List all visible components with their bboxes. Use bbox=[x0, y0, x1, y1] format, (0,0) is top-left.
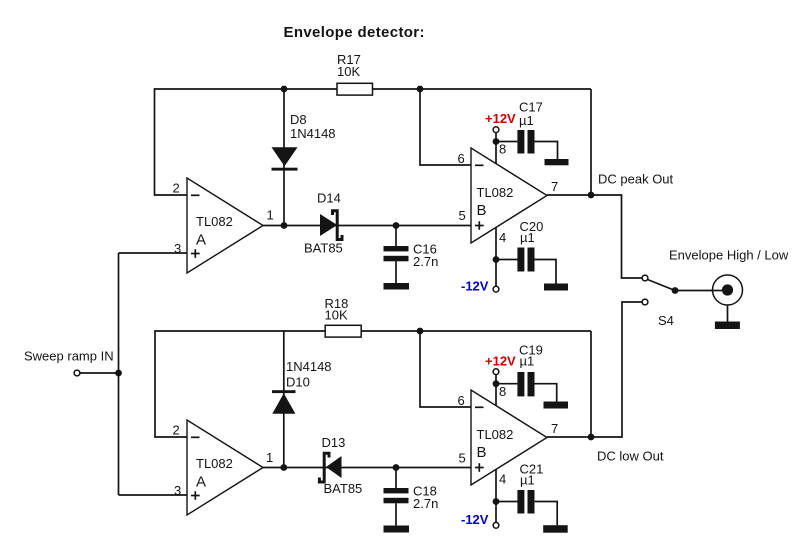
svg-text:5: 5 bbox=[459, 451, 466, 466]
svg-text:1N4148: 1N4148 bbox=[286, 359, 332, 374]
svg-text:2.7n: 2.7n bbox=[413, 496, 438, 511]
svg-text:3: 3 bbox=[174, 241, 181, 256]
svg-text:7: 7 bbox=[551, 421, 558, 436]
svg-text:B: B bbox=[477, 202, 487, 219]
svg-text:2: 2 bbox=[173, 181, 180, 196]
svg-text:+12V: +12V bbox=[485, 111, 516, 126]
svg-text:Envelope High / Low: Envelope High / Low bbox=[669, 247, 789, 262]
svg-text:2: 2 bbox=[173, 423, 180, 438]
svg-text:DC low Out: DC low Out bbox=[597, 449, 664, 464]
svg-text:7: 7 bbox=[551, 179, 558, 194]
svg-text:+12V: +12V bbox=[485, 353, 516, 368]
svg-text:A: A bbox=[196, 474, 206, 491]
svg-text:10K: 10K bbox=[325, 308, 348, 323]
svg-text:TL082: TL082 bbox=[196, 456, 233, 471]
svg-text:A: A bbox=[196, 232, 206, 249]
svg-text:8: 8 bbox=[499, 142, 506, 157]
svg-text:4: 4 bbox=[499, 472, 506, 487]
svg-text:µ1: µ1 bbox=[520, 354, 535, 369]
svg-text:D10: D10 bbox=[286, 375, 310, 390]
svg-text:µ1: µ1 bbox=[520, 473, 535, 488]
svg-text:1: 1 bbox=[266, 450, 273, 465]
svg-text:DC peak Out: DC peak Out bbox=[598, 171, 674, 186]
svg-text:10K: 10K bbox=[337, 64, 360, 79]
svg-text:-12V: -12V bbox=[461, 512, 489, 527]
svg-text:D8: D8 bbox=[290, 112, 307, 127]
svg-text:Envelope detector:: Envelope detector: bbox=[284, 24, 425, 41]
svg-text:µ1: µ1 bbox=[520, 230, 535, 245]
svg-text:S4: S4 bbox=[658, 313, 674, 328]
svg-text:BAT85: BAT85 bbox=[324, 481, 363, 496]
svg-text:1N4148: 1N4148 bbox=[290, 126, 336, 141]
svg-text:D14: D14 bbox=[317, 191, 341, 206]
svg-text:µ1: µ1 bbox=[519, 113, 534, 128]
svg-text:BAT85: BAT85 bbox=[304, 241, 343, 256]
svg-text:4: 4 bbox=[499, 230, 506, 245]
svg-text:D13: D13 bbox=[322, 435, 346, 450]
svg-text:2.7n: 2.7n bbox=[413, 254, 438, 269]
svg-text:TL082: TL082 bbox=[196, 214, 233, 229]
svg-text:1: 1 bbox=[267, 208, 274, 223]
svg-text:5: 5 bbox=[459, 208, 466, 223]
svg-text:6: 6 bbox=[458, 393, 465, 408]
svg-text:TL082: TL082 bbox=[477, 185, 514, 200]
svg-text:Sweep ramp IN: Sweep ramp IN bbox=[24, 349, 114, 364]
svg-text:TL082: TL082 bbox=[477, 427, 514, 442]
svg-text:3: 3 bbox=[174, 483, 181, 498]
svg-text:-12V: -12V bbox=[461, 279, 489, 294]
svg-text:B: B bbox=[477, 444, 487, 461]
svg-text:6: 6 bbox=[458, 151, 465, 166]
svg-text:8: 8 bbox=[499, 384, 506, 399]
